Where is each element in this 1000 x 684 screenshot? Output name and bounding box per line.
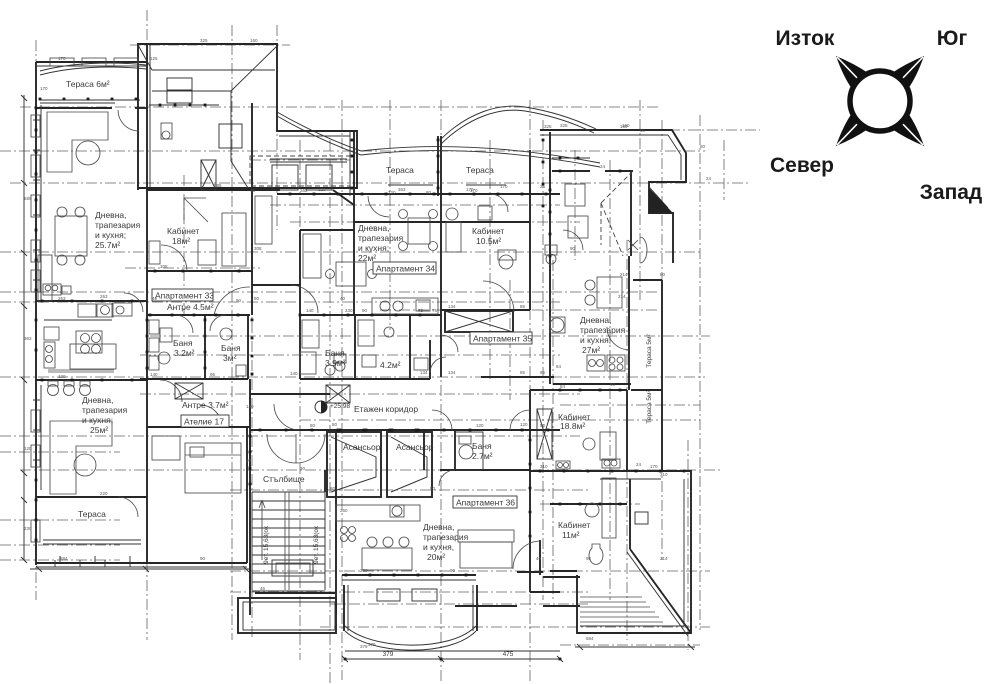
svg-text:и кухня,: и кухня, bbox=[423, 542, 454, 552]
svg-text:Баня: Баня bbox=[173, 338, 193, 348]
svg-text:46: 46 bbox=[260, 586, 266, 591]
svg-text:и кухня;: и кухня; bbox=[95, 230, 126, 240]
svg-text:3.2м²: 3.2м² bbox=[174, 348, 195, 358]
svg-text:230: 230 bbox=[24, 526, 32, 531]
svg-text:Юг: Юг bbox=[937, 27, 968, 50]
svg-text:585: 585 bbox=[24, 196, 32, 201]
svg-text:120: 120 bbox=[24, 446, 32, 451]
svg-text:Баня: Баня bbox=[325, 348, 345, 358]
svg-text:20м²: 20м² bbox=[427, 552, 445, 562]
svg-text:80: 80 bbox=[332, 422, 338, 427]
svg-text:Тераса 6м²: Тераса 6м² bbox=[66, 79, 110, 89]
svg-text:Ателие 17: Ателие 17 bbox=[184, 417, 224, 427]
svg-text:24: 24 bbox=[600, 164, 606, 169]
svg-text:75: 75 bbox=[432, 308, 438, 313]
svg-text:308: 308 bbox=[254, 246, 262, 251]
svg-text:308: 308 bbox=[160, 264, 168, 269]
svg-text:Апартамент 36: Апартамент 36 bbox=[456, 498, 515, 508]
svg-text:120: 120 bbox=[476, 423, 484, 428]
svg-text:Запад: Запад bbox=[920, 181, 983, 204]
svg-text:30: 30 bbox=[300, 466, 306, 471]
svg-text:585: 585 bbox=[214, 183, 222, 188]
svg-text:Дневна,: Дневна, bbox=[95, 210, 126, 220]
svg-text:22м²: 22м² bbox=[358, 253, 376, 263]
svg-text:Тераса: Тераса bbox=[466, 165, 494, 175]
svg-text:263: 263 bbox=[100, 294, 108, 299]
svg-text:40: 40 bbox=[340, 296, 346, 301]
svg-text:Тераса: Тераса bbox=[78, 509, 106, 519]
svg-text:325: 325 bbox=[560, 123, 568, 128]
svg-text:214: 214 bbox=[618, 294, 626, 299]
svg-text:11м²: 11м² bbox=[562, 530, 580, 540]
svg-text:90: 90 bbox=[586, 556, 592, 561]
svg-text:Апартамент 35: Апартамент 35 bbox=[473, 334, 532, 344]
svg-text:84: 84 bbox=[560, 384, 566, 389]
svg-text:85: 85 bbox=[520, 304, 526, 309]
svg-text:90: 90 bbox=[254, 296, 260, 301]
svg-text:Изток: Изток bbox=[776, 27, 835, 50]
svg-text:125: 125 bbox=[150, 56, 158, 61]
svg-text:140: 140 bbox=[246, 404, 254, 409]
svg-text:80: 80 bbox=[330, 486, 336, 491]
svg-text:220: 220 bbox=[100, 491, 108, 496]
svg-text:Асансьор: Асансьор bbox=[343, 442, 381, 452]
svg-text:Север: Север bbox=[770, 154, 834, 177]
svg-text:170: 170 bbox=[40, 86, 48, 91]
svg-text:46: 46 bbox=[536, 556, 542, 561]
svg-text:325: 325 bbox=[200, 38, 208, 43]
svg-text:Кабинет: Кабинет bbox=[558, 520, 590, 530]
svg-text:75: 75 bbox=[418, 308, 424, 313]
svg-text:25м²: 25м² bbox=[90, 425, 108, 435]
svg-text:310: 310 bbox=[660, 472, 668, 477]
svg-text:80: 80 bbox=[426, 190, 432, 195]
svg-text:Кабинет: Кабинет bbox=[167, 226, 199, 236]
svg-text:120: 120 bbox=[58, 374, 66, 379]
svg-text:трапезария: трапезария bbox=[580, 325, 626, 335]
svg-text:трапезария: трапезария bbox=[423, 532, 469, 542]
svg-text:9ет. 15,63(ок: 9ет. 15,63(ок bbox=[313, 526, 320, 564]
svg-text:80: 80 bbox=[700, 144, 706, 149]
svg-text:160: 160 bbox=[622, 123, 630, 128]
svg-text:трапезария: трапезария bbox=[358, 233, 404, 243]
svg-text:134: 134 bbox=[448, 304, 456, 309]
svg-text:24: 24 bbox=[636, 462, 642, 467]
svg-text:170: 170 bbox=[650, 464, 658, 469]
svg-text:Кабинет: Кабинет bbox=[472, 226, 504, 236]
svg-text:379: 379 bbox=[383, 651, 394, 658]
svg-text:Апартамент 33: Апартамент 33 bbox=[155, 291, 214, 301]
svg-text:45: 45 bbox=[250, 188, 256, 193]
svg-text:Баня: Баня bbox=[221, 343, 241, 353]
svg-text:584: 584 bbox=[60, 556, 68, 561]
svg-text:90: 90 bbox=[362, 308, 368, 313]
svg-text:Етажен коридор: Етажен коридор bbox=[354, 404, 418, 414]
svg-text:9ет. 15,63(ок: 9ет. 15,63(ок bbox=[263, 526, 270, 564]
svg-text:трапезария: трапезария bbox=[82, 405, 128, 415]
svg-text:24: 24 bbox=[540, 184, 546, 189]
svg-text:+25.98: +25.98 bbox=[330, 403, 350, 410]
svg-text:80: 80 bbox=[310, 423, 316, 428]
svg-text:Тераса 5м²: Тераса 5м² bbox=[646, 333, 653, 367]
svg-text:Дневна,: Дневна, bbox=[358, 223, 389, 233]
svg-text:Дневна,: Дневна, bbox=[580, 315, 611, 325]
svg-text:46: 46 bbox=[152, 296, 158, 301]
svg-text:80: 80 bbox=[660, 272, 666, 277]
svg-text:120: 120 bbox=[520, 422, 528, 427]
svg-text:80: 80 bbox=[640, 128, 646, 133]
svg-text:и кухня;: и кухня; bbox=[82, 415, 113, 425]
svg-text:140: 140 bbox=[306, 308, 314, 313]
svg-text:Апартамент 34: Апартамент 34 bbox=[376, 264, 435, 274]
svg-text:85: 85 bbox=[540, 370, 546, 375]
svg-text:Асансьор: Асансьор bbox=[396, 442, 434, 452]
svg-text:90: 90 bbox=[540, 423, 546, 428]
svg-text:134: 134 bbox=[420, 370, 428, 375]
svg-text:3м²: 3м² bbox=[223, 353, 237, 363]
svg-text:24: 24 bbox=[706, 176, 712, 181]
svg-text:170: 170 bbox=[58, 56, 66, 61]
svg-text:и кухня;: и кухня; bbox=[580, 335, 611, 345]
svg-text:трапезария: трапезария bbox=[95, 220, 141, 230]
svg-text:27м²: 27м² bbox=[582, 345, 600, 355]
svg-text:379: 379 bbox=[368, 642, 376, 647]
svg-text:214: 214 bbox=[620, 272, 628, 277]
svg-text:Дневна,: Дневна, bbox=[82, 395, 113, 405]
svg-text:475: 475 bbox=[503, 651, 514, 658]
svg-text:90: 90 bbox=[570, 246, 576, 251]
svg-text:Антре 3.7м²: Антре 3.7м² bbox=[182, 400, 229, 410]
svg-text:4.2м²: 4.2м² bbox=[380, 360, 401, 370]
svg-text:Тераса 5м²: Тераса 5м² bbox=[646, 389, 653, 423]
svg-text:Баня: Баня bbox=[472, 441, 492, 451]
svg-text:Тераса: Тераса bbox=[386, 165, 414, 175]
svg-text:170: 170 bbox=[500, 184, 508, 189]
svg-text:310: 310 bbox=[540, 464, 548, 469]
svg-text:3.9м²: 3.9м² bbox=[325, 358, 346, 368]
svg-text:584: 584 bbox=[586, 636, 594, 641]
svg-text:140: 140 bbox=[290, 371, 298, 376]
svg-text:84: 84 bbox=[556, 364, 562, 369]
svg-text:90: 90 bbox=[200, 556, 206, 561]
svg-text:230: 230 bbox=[345, 308, 353, 313]
svg-text:90: 90 bbox=[610, 382, 616, 387]
svg-text:120: 120 bbox=[318, 187, 326, 192]
svg-text:134: 134 bbox=[448, 370, 456, 375]
svg-text:260: 260 bbox=[360, 568, 368, 573]
svg-text:30: 30 bbox=[246, 458, 252, 463]
svg-text:263: 263 bbox=[58, 296, 66, 301]
svg-text:160: 160 bbox=[250, 38, 258, 43]
svg-text:96: 96 bbox=[210, 372, 216, 377]
svg-text:260: 260 bbox=[340, 508, 348, 513]
svg-text:170: 170 bbox=[470, 188, 478, 193]
svg-text:120: 120 bbox=[388, 190, 396, 195]
svg-text:363: 363 bbox=[24, 336, 32, 341]
svg-text:10.5м²: 10.5м² bbox=[476, 236, 501, 246]
svg-text:90: 90 bbox=[236, 298, 242, 303]
svg-text:214: 214 bbox=[660, 556, 668, 561]
svg-text:2.7м²: 2.7м² bbox=[472, 451, 493, 461]
svg-text:18.8м²: 18.8м² bbox=[560, 421, 585, 431]
svg-text:363: 363 bbox=[398, 187, 406, 192]
svg-text:25.7м²: 25.7м² bbox=[95, 240, 120, 250]
svg-text:85: 85 bbox=[520, 370, 526, 375]
svg-text:90: 90 bbox=[450, 568, 456, 573]
svg-text:140: 140 bbox=[150, 372, 158, 377]
svg-text:и кухня;: и кухня; bbox=[358, 243, 389, 253]
svg-text:262: 262 bbox=[300, 188, 308, 193]
svg-text:Стълбище: Стълбище bbox=[263, 474, 305, 484]
svg-text:325: 325 bbox=[544, 124, 552, 129]
svg-text:Дневна,: Дневна, bbox=[423, 522, 454, 532]
svg-text:379: 379 bbox=[360, 644, 368, 649]
svg-text:18м²: 18м² bbox=[172, 236, 190, 246]
svg-text:90: 90 bbox=[430, 486, 436, 491]
svg-text:Антре 4.5м²: Антре 4.5м² bbox=[167, 302, 214, 312]
